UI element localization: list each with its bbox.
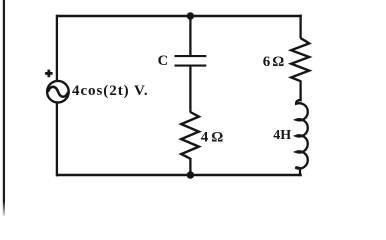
wire middle lower (R 4ohm bottom lead) bbox=[189, 158, 191, 176]
node B (bottom junction dot) bbox=[187, 171, 195, 179]
voltage source VS1 4cos(2t) V bbox=[47, 81, 69, 103]
resistor R 6ohm (zigzag) bbox=[291, 38, 309, 81]
wire middle upper (C top lead) bbox=[189, 16, 191, 56]
svg-text:Ω: Ω bbox=[211, 129, 223, 145]
wire right lower (4H bottom lead) bbox=[299, 168, 301, 177]
svg-text:6: 6 bbox=[263, 54, 271, 70]
svg-text:4: 4 bbox=[201, 129, 209, 145]
wire middle (C to R 4ohm) bbox=[189, 67, 191, 113]
wire right upper (6ohm top lead) bbox=[299, 15, 301, 39]
svg-text:C: C bbox=[158, 53, 168, 69]
wire left upper (source top lead) bbox=[56, 15, 58, 81]
svg-text:4H: 4H bbox=[273, 128, 291, 143]
svg-text:Ω: Ω bbox=[272, 54, 284, 70]
wire top (node between source, C branch, right branch) bbox=[56, 15, 302, 17]
capacitor C bbox=[175, 56, 207, 66]
plus polarity mark bbox=[45, 70, 53, 78]
wire right middle (between 6ohm and 4H) bbox=[299, 81, 301, 102]
inductor L 4H (coil) bbox=[296, 100, 308, 169]
wire left lower (source bottom lead) bbox=[56, 103, 58, 177]
wire bottom bbox=[56, 174, 302, 177]
svg-text:4cos(2t) V.: 4cos(2t) V. bbox=[72, 83, 149, 99]
node A (top junction dot) bbox=[187, 12, 194, 19]
resistor R 4ohm (zigzag) bbox=[181, 112, 199, 159]
